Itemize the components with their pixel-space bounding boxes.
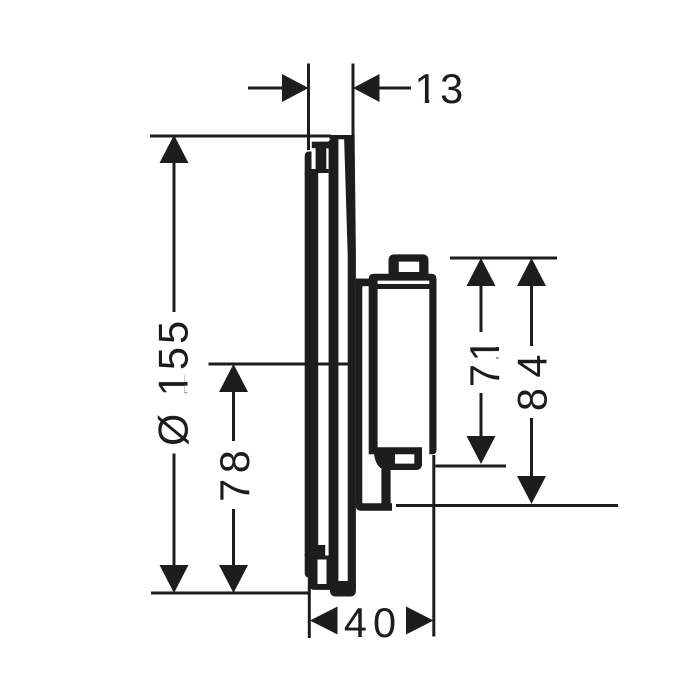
dim71-84 ext line top <box>450 257 557 260</box>
dim13 ext line left <box>307 64 310 151</box>
escutcheon plate slab <box>305 172 319 556</box>
svg-text:78: 78 <box>211 445 258 502</box>
dim84 dim line upper <box>530 284 533 346</box>
bottom tab <box>385 450 422 470</box>
dim13 line left segment <box>248 87 284 90</box>
dim78 ext line <box>209 363 353 366</box>
body outline <box>369 274 437 455</box>
dim84 ext line bottom <box>396 504 618 507</box>
dim78 dim line upper <box>232 390 235 441</box>
svg-text:13: 13 <box>415 65 466 112</box>
sleeve back face (slanted at top) <box>344 135 356 589</box>
dim71 dim line lower <box>480 393 483 440</box>
dim71 dim line upper <box>480 284 483 332</box>
arrow dia155 bottom (points down) <box>160 565 189 593</box>
plate rim top edge <box>312 142 330 149</box>
arrow dia155 top (points up) <box>160 135 189 163</box>
knob window lower edge <box>398 272 421 276</box>
arrow dim78 bottom (points down) <box>219 565 248 593</box>
dim40 ext line left <box>308 577 311 638</box>
tab elbow joint <box>374 453 395 470</box>
dia155 ext line bottom <box>151 592 310 595</box>
foot right wall <box>381 458 390 507</box>
arrow dim13 left (points right) <box>282 74 309 102</box>
plate top notch line <box>312 169 329 173</box>
arrow dim40 left (points left) <box>310 607 338 635</box>
plate front edge top <box>305 152 312 176</box>
dim71 ext line bottom <box>436 465 507 468</box>
dia155 ext line top <box>150 135 331 138</box>
bracket left wall <box>356 279 363 507</box>
glyph foot masks to match target font (footless 1) <box>185 100 501 393</box>
plate rim bottom right edge <box>327 558 332 585</box>
dim13 ext line right <box>352 64 355 140</box>
arrow dim13 right (points left) <box>353 74 380 102</box>
plate rim bottom left edge <box>310 556 317 586</box>
svg-text:Ø 155: Ø 155 <box>150 318 197 446</box>
arrow dim84 top (points up) <box>517 258 546 286</box>
arrow dim84 bottom (points down) <box>517 476 546 504</box>
dia155 dim line lower <box>173 454 176 568</box>
svg-text:71: 71 <box>461 336 508 387</box>
plate rim bottom edge <box>310 584 331 590</box>
plate front edge bottom <box>305 554 312 578</box>
arrow dim78 top (points up) <box>219 364 248 392</box>
bracket top edge <box>356 279 371 287</box>
sleeve bottom edge <box>330 581 356 597</box>
sleeve top edge <box>330 135 355 139</box>
foot bottom edge <box>356 503 392 511</box>
dim78 dim line lower <box>232 509 235 567</box>
sleeve front face <box>329 139 339 588</box>
plate rim top block <box>316 142 330 173</box>
dim13 line right segment <box>378 87 411 90</box>
knob on top of body <box>389 254 429 276</box>
arrow dim40 right (points right) <box>406 607 434 635</box>
svg-text:40: 40 <box>344 599 402 646</box>
plate bottom notch line <box>312 556 330 560</box>
plate slab bottom step <box>318 545 325 558</box>
svg-text:84: 84 <box>509 344 556 411</box>
arrow dim71 top (points up) <box>467 258 496 286</box>
arrow dim71 bottom (points down) <box>467 436 496 464</box>
dim84 dim line lower <box>530 418 533 478</box>
dim40 ext line right <box>432 455 435 637</box>
body top seam <box>377 284 432 289</box>
dia155 dim line upper <box>173 161 176 312</box>
